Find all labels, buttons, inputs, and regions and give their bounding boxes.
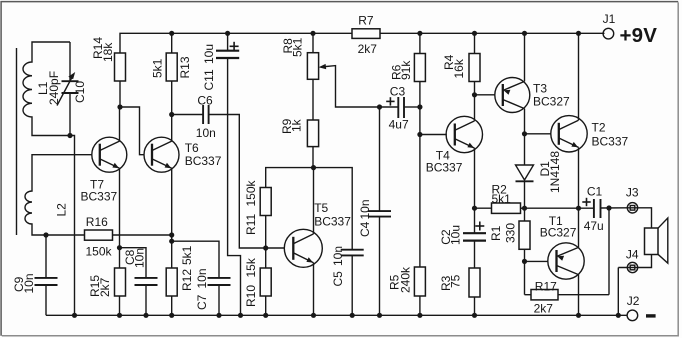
svg-text:J4: J4: [626, 247, 639, 261]
capacitor C1: [593, 199, 595, 218]
svg-text:C1: C1: [587, 185, 603, 199]
svg-text:1k: 1k: [290, 118, 304, 132]
svg-text:10n: 10n: [331, 246, 345, 266]
node R11 R10 junction: [263, 245, 268, 250]
node L1 bottom junction: [67, 133, 72, 138]
capacitor C11: [225, 31, 230, 36]
wire to T3 base: [475, 94, 495, 96]
svg-text:R1: R1: [489, 225, 503, 241]
svg-text:5k1: 5k1: [180, 245, 194, 265]
resistor R12: [171, 241, 173, 268]
svg-text:1N4148: 1N4148: [548, 151, 562, 193]
resistor R6: [417, 31, 422, 36]
connector J4: [627, 262, 637, 272]
wire T4 emitter: [474, 148, 476, 208]
transistor T5: [284, 229, 322, 267]
wire to T1 base: [525, 260, 549, 262]
svg-text:T5: T5: [314, 201, 328, 215]
svg-text:BC337: BC337: [426, 160, 463, 174]
wire T7 collector stub: [119, 107, 121, 141]
node D1 R2 R1 junction: [522, 206, 527, 211]
wire T6 emitter: [171, 168, 173, 241]
connector J1: [603, 28, 614, 39]
inductor L1: [23, 42, 70, 136]
wire to T2 base: [525, 133, 551, 135]
svg-text:5k1: 5k1: [291, 37, 305, 57]
svg-text:240k: 240k: [399, 266, 413, 293]
svg-text:10u: 10u: [202, 44, 216, 64]
node output junction: [576, 206, 581, 211]
svg-text:J1: J1: [603, 12, 616, 26]
svg-text:75: 75: [449, 274, 463, 288]
transistor T4: [446, 116, 482, 152]
transistor T3: [495, 78, 530, 113]
resistor R14: [119, 52, 121, 54]
svg-text:4u7: 4u7: [389, 118, 409, 132]
node T6 emitter junction lower: [169, 239, 174, 244]
resistor R9: [312, 79, 314, 120]
svg-text:BC337: BC337: [314, 214, 351, 228]
ferrite core line: [16, 48, 18, 235]
wire C3 node to T4 base: [419, 107, 421, 135]
resistor R4: [472, 31, 477, 36]
svg-text:2k7: 2k7: [358, 42, 378, 56]
svg-text:BC337: BC337: [592, 134, 629, 148]
node R4 T3 base junction: [472, 92, 477, 97]
resistor R13: [169, 31, 174, 36]
resistor R2: [475, 207, 492, 209]
wire ground rail: [46, 314, 627, 316]
wire output to C1: [521, 207, 594, 209]
node T7 collector junction: [117, 104, 122, 109]
svg-text:C11: C11: [202, 69, 216, 90]
resistor R15: [119, 248, 121, 268]
svg-text:R10: R10: [244, 285, 258, 307]
node T3 collector junction: [522, 131, 527, 136]
svg-text:L2: L2: [54, 203, 68, 217]
transistor T7: [92, 137, 127, 172]
capacitor C9: [45, 235, 47, 278]
svg-text:47u: 47u: [584, 219, 604, 233]
resistor R7: [352, 29, 380, 39]
svg-text:C5: C5: [331, 271, 345, 287]
wire T7 collector to T6 base: [120, 107, 144, 155]
wire T5 emitter to ground: [313, 263, 315, 316]
svg-text:R16: R16: [86, 215, 108, 229]
resistor R3: [469, 268, 480, 297]
svg-text:R11: R11: [244, 214, 258, 235]
connector J3: [627, 203, 637, 213]
wire J4 to speaker: [618, 255, 651, 268]
node L2 bottom junction: [43, 232, 48, 237]
svg-text:BC337: BC337: [185, 154, 222, 168]
svg-text:91k: 91k: [399, 60, 413, 80]
svg-text:10n: 10n: [358, 199, 372, 219]
wire T2 emitter: [578, 147, 580, 208]
wire T1 collector to ground: [578, 275, 580, 316]
svg-text:T3: T3: [533, 81, 547, 95]
node T6 collector junction: [169, 112, 174, 117]
svg-text:BC327: BC327: [533, 94, 570, 108]
svg-text:10n: 10n: [195, 268, 209, 288]
resistor R11: [265, 216, 267, 249]
node T5 collector junction: [311, 165, 316, 170]
node minus label: [646, 314, 656, 317]
capacitor C4: [379, 107, 381, 211]
svg-text:BC327: BC327: [540, 225, 577, 239]
wire top +9V rail left segment: [120, 33, 352, 53]
svg-text:150k: 150k: [86, 244, 113, 258]
transistor T1: [548, 243, 584, 279]
svg-text:16k: 16k: [452, 58, 466, 78]
svg-text:R13: R13: [178, 56, 192, 78]
resistor R16: [46, 234, 85, 236]
node T7 emitter junction: [117, 245, 122, 250]
svg-text:BC337: BC337: [81, 189, 118, 203]
wire R17 to output node: [608, 208, 610, 295]
svg-text:J2: J2: [627, 294, 640, 308]
wire T3 emitter to rail: [522, 31, 527, 36]
capacitor C3: [380, 106, 399, 108]
capacitor C8: [120, 248, 147, 278]
wire J4 to ground: [617, 268, 619, 316]
svg-text:+9V: +9V: [620, 24, 658, 47]
svg-text:5k1: 5k1: [492, 192, 512, 206]
transistor T6: [144, 137, 179, 172]
node T4 emitter R2 junction: [472, 206, 477, 211]
wire R8 wiper arm: [321, 66, 380, 107]
wire top +9V rail right segment: [380, 32, 605, 34]
node R6 C3 junction: [417, 104, 422, 109]
svg-text:18k: 18k: [101, 42, 115, 62]
svg-text:C4: C4: [358, 221, 372, 237]
wire L1 to ground: [70, 136, 75, 316]
node T1 base junction: [522, 259, 527, 264]
wire T1 emitter up to output: [578, 208, 580, 247]
svg-text:15k: 15k: [244, 257, 258, 277]
svg-text:240pF: 240pF: [47, 71, 61, 105]
resistor R5: [419, 135, 421, 268]
node T4 base junction: [417, 132, 422, 137]
wire T4 collector: [474, 95, 476, 121]
wire T5 collector stub: [313, 168, 315, 234]
svg-text:10n: 10n: [22, 273, 36, 293]
svg-text:R7: R7: [358, 14, 374, 28]
capacitor C5: [314, 168, 353, 250]
svg-text:J3: J3: [626, 186, 639, 200]
capacitor C10: [69, 42, 71, 81]
resistor R17: [524, 261, 526, 294]
transistor T2: [551, 116, 587, 152]
wire T6 collector stub: [171, 115, 173, 142]
connector J2: [627, 310, 638, 321]
svg-text:10n: 10n: [133, 248, 147, 268]
wire T2 collector to rail: [576, 31, 581, 36]
svg-text:10n: 10n: [196, 126, 216, 140]
capacitor C7: [172, 241, 219, 278]
diode D1: [524, 134, 526, 165]
capacitor C2: [474, 208, 476, 233]
svg-text:T2: T2: [592, 120, 606, 134]
capacitor C6: [172, 114, 203, 116]
inductor L2: [25, 155, 92, 235]
svg-text:150k: 150k: [244, 179, 258, 206]
svg-text:2k7: 2k7: [98, 277, 112, 297]
svg-text:2k7: 2k7: [534, 302, 554, 316]
wire J3 to speaker: [627, 208, 651, 228]
resistor R10: [265, 248, 267, 268]
svg-text:C10: C10: [73, 81, 87, 103]
svg-text:R17: R17: [535, 279, 557, 293]
wire T3 collector: [524, 109, 526, 134]
svg-text:330: 330: [504, 223, 518, 243]
svg-text:T6: T6: [185, 141, 199, 155]
svg-text:10u: 10u: [449, 225, 463, 245]
wire C6 to T5 base: [239, 115, 284, 249]
svg-text:C7: C7: [195, 294, 209, 310]
node C1 right junction: [606, 205, 611, 210]
svg-text:C3: C3: [390, 84, 406, 98]
svg-text:C6: C6: [197, 94, 213, 108]
node T6 emitter junction upper: [169, 232, 174, 237]
svg-text:R12: R12: [180, 269, 194, 291]
node C3 C4 wiper junction: [377, 104, 382, 109]
wire T7 emitter: [119, 168, 121, 247]
potentiometer R8: [310, 31, 315, 36]
resistor R1: [524, 208, 526, 221]
svg-text:5k1: 5k1: [151, 58, 165, 78]
speaker LS: [645, 228, 659, 255]
